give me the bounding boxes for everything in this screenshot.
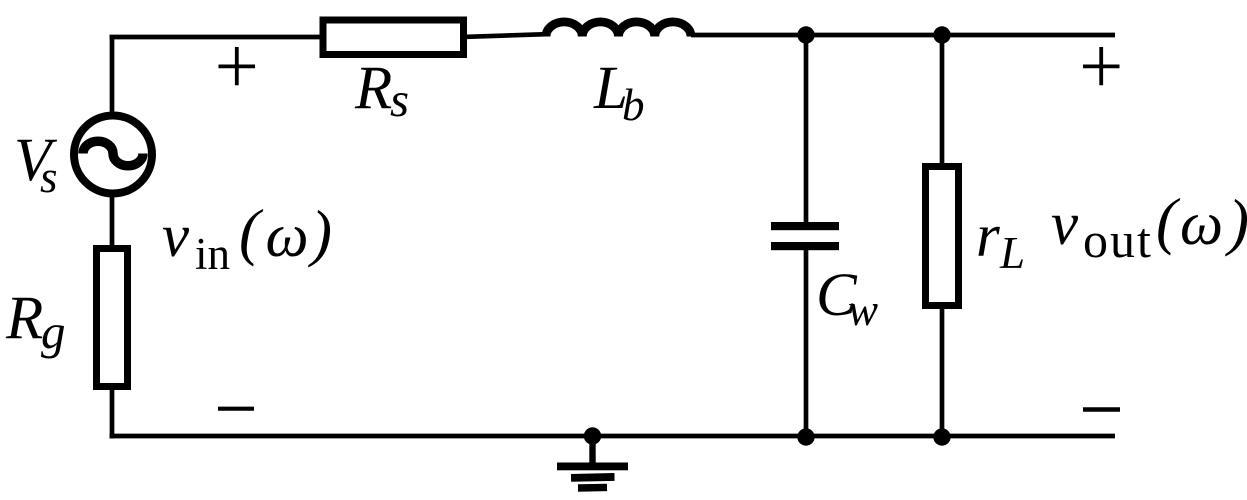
wire Rs to Lb xyxy=(467,34,546,37)
wire Vs to Rg xyxy=(110,193,115,248)
wire top-left horizontal xyxy=(110,35,321,40)
svg-text:v: v xyxy=(162,203,190,270)
wire load bottom xyxy=(940,306,945,436)
plus sign output xyxy=(1083,47,1120,85)
wire Rg to bottom rail xyxy=(110,386,115,439)
svg-text:): ) xyxy=(1225,187,1247,257)
node junction top load xyxy=(933,26,950,43)
svg-text:g: g xyxy=(41,304,66,359)
wire bottom rail xyxy=(110,434,1116,439)
svg-text:v: v xyxy=(1051,191,1079,258)
svg-text:r: r xyxy=(976,203,1000,270)
svg-text:R: R xyxy=(5,285,43,352)
inductor Lb xyxy=(546,22,691,37)
capacitor Cw xyxy=(771,222,839,250)
svg-text:(: ( xyxy=(239,197,264,267)
plus sign input xyxy=(219,47,256,85)
svg-text:w: w xyxy=(848,285,878,335)
svg-text:b: b xyxy=(622,80,645,130)
node junction bottom load xyxy=(933,428,950,445)
svg-text:(: ( xyxy=(1156,186,1181,256)
svg-text:R: R xyxy=(354,55,392,122)
svg-text:s: s xyxy=(40,152,58,202)
svg-text:L: L xyxy=(999,228,1025,278)
wire capacitor top xyxy=(804,35,809,222)
svg-text:out: out xyxy=(1083,212,1153,268)
minus sign input xyxy=(218,407,254,411)
wire top-left vertical xyxy=(110,37,115,113)
node ground junction xyxy=(584,427,601,444)
wire load top xyxy=(940,35,945,163)
node junction top capacitor xyxy=(797,26,814,43)
ground xyxy=(557,436,628,492)
resistor Rg xyxy=(97,249,128,387)
node junction bottom capacitor xyxy=(797,428,814,445)
svg-text:in: in xyxy=(195,229,230,279)
wire Lb to top-right xyxy=(691,33,1115,38)
resistor rL xyxy=(926,167,959,306)
voltage source Vs xyxy=(74,116,152,194)
resistor Rs xyxy=(323,20,464,55)
svg-text:): ) xyxy=(308,198,332,268)
wire capacitor bottom xyxy=(804,250,809,436)
minus sign output xyxy=(1083,407,1120,412)
svg-text:ω: ω xyxy=(266,203,309,270)
svg-text:s: s xyxy=(390,72,409,127)
svg-text:ω: ω xyxy=(1180,191,1223,258)
